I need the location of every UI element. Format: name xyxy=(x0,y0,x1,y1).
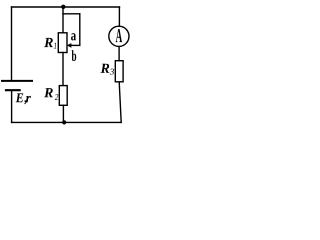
wire right vertical lower (bottom to R3) xyxy=(119,82,121,123)
wire wiper spur horizontal xyxy=(63,13,80,15)
wire left vertical upper (to battery) xyxy=(11,7,13,81)
label R2 xyxy=(44,88,53,97)
label E,r (battery) xyxy=(16,93,24,102)
label b (wiper bottom) xyxy=(72,50,77,61)
resistor R1 body (potentiometer) xyxy=(58,33,67,53)
wire wiper arrow shaft xyxy=(71,44,80,46)
wiper arrowhead xyxy=(67,43,72,48)
label A (ammeter) xyxy=(116,29,122,42)
wire node to R1 top xyxy=(62,7,64,33)
battery E,r long plate xyxy=(2,80,32,82)
resistor R3 body xyxy=(115,61,123,82)
node dot top junction xyxy=(61,5,65,9)
wire R3 to ammeter xyxy=(118,46,120,60)
node dot bottom junction xyxy=(62,120,66,124)
battery E,r short plate xyxy=(6,89,20,91)
label a (wiper top) xyxy=(71,33,76,40)
label R1 xyxy=(44,38,53,47)
wire top horizontal xyxy=(12,6,120,8)
wire wiper vertical xyxy=(79,14,81,46)
label R3 xyxy=(100,64,109,73)
wire bottom horizontal xyxy=(12,121,122,123)
wire ammeter to top xyxy=(118,7,120,26)
wire R2 to bottom node xyxy=(62,105,64,122)
ammeter A circle xyxy=(109,26,129,46)
resistor R2 body xyxy=(59,86,67,106)
wire R1 to R2 xyxy=(62,53,64,86)
wire left vertical lower (battery to bottom) xyxy=(11,90,13,122)
